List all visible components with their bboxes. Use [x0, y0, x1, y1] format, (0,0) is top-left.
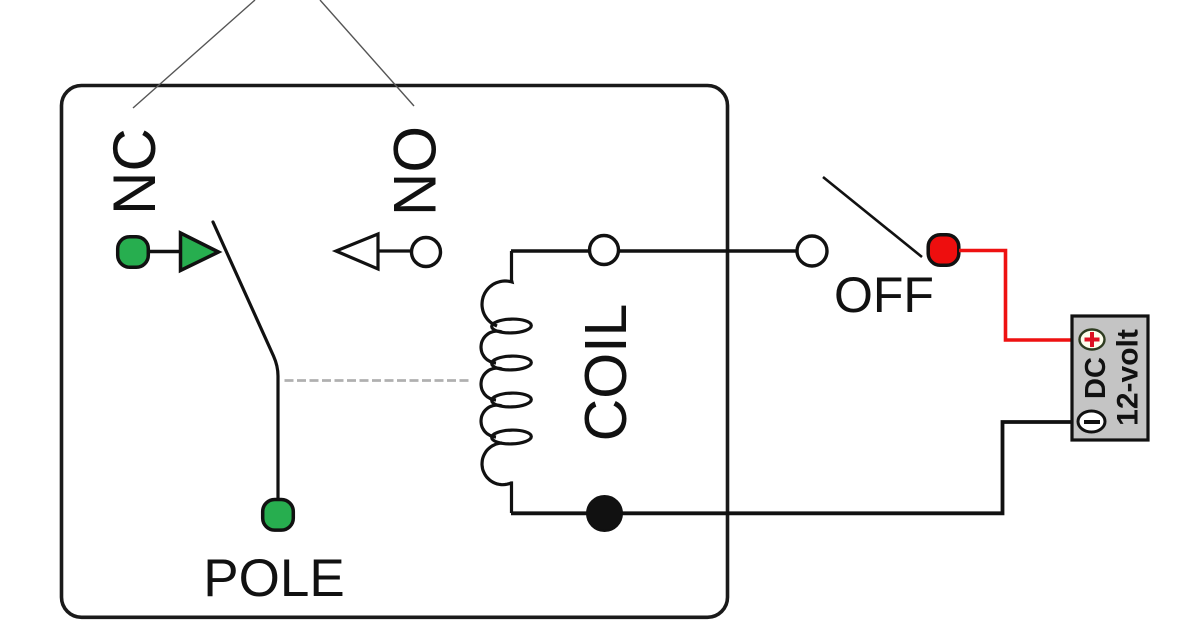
coil bottom terminal (black)	[587, 496, 622, 531]
svg-text:12-volt: 12-volt	[1112, 329, 1145, 426]
coil top terminal	[590, 236, 619, 265]
wire coil top to switch	[511, 249, 797, 252]
switch blade	[823, 177, 922, 257]
svg-text:POLE: POLE	[203, 549, 344, 608]
NC contact (green triangle)	[181, 233, 219, 271]
terminal POLE (green)	[263, 500, 294, 531]
armature dashed link	[285, 379, 473, 382]
callout line right	[320, 0, 414, 106]
switch terminal left (open)	[797, 236, 827, 266]
switch terminal right (red)	[928, 235, 959, 266]
NO contact (open triangle)	[336, 234, 378, 269]
coil winding	[481, 251, 531, 513]
battery minus symbol	[1078, 411, 1105, 432]
relay box	[62, 86, 728, 618]
wire red to battery plus	[959, 251, 1073, 341]
wire coil bottom to battery minus	[511, 422, 1073, 513]
svg-text:COIL: COIL	[573, 304, 639, 442]
svg-text:NC: NC	[101, 128, 168, 215]
battery plus symbol	[1080, 330, 1105, 350]
svg-text:NO: NO	[382, 126, 449, 216]
svg-text:DC: DC	[1080, 357, 1112, 399]
terminal NC (green)	[118, 237, 149, 268]
wire NC terminal to contact	[147, 250, 181, 254]
terminal NO (open)	[412, 238, 441, 267]
battery connector body	[1072, 316, 1148, 440]
wire NO contact to terminal	[378, 249, 412, 252]
pole switch arm	[213, 222, 278, 498]
callout line left	[133, 0, 255, 108]
svg-text:OFF: OFF	[834, 267, 934, 323]
